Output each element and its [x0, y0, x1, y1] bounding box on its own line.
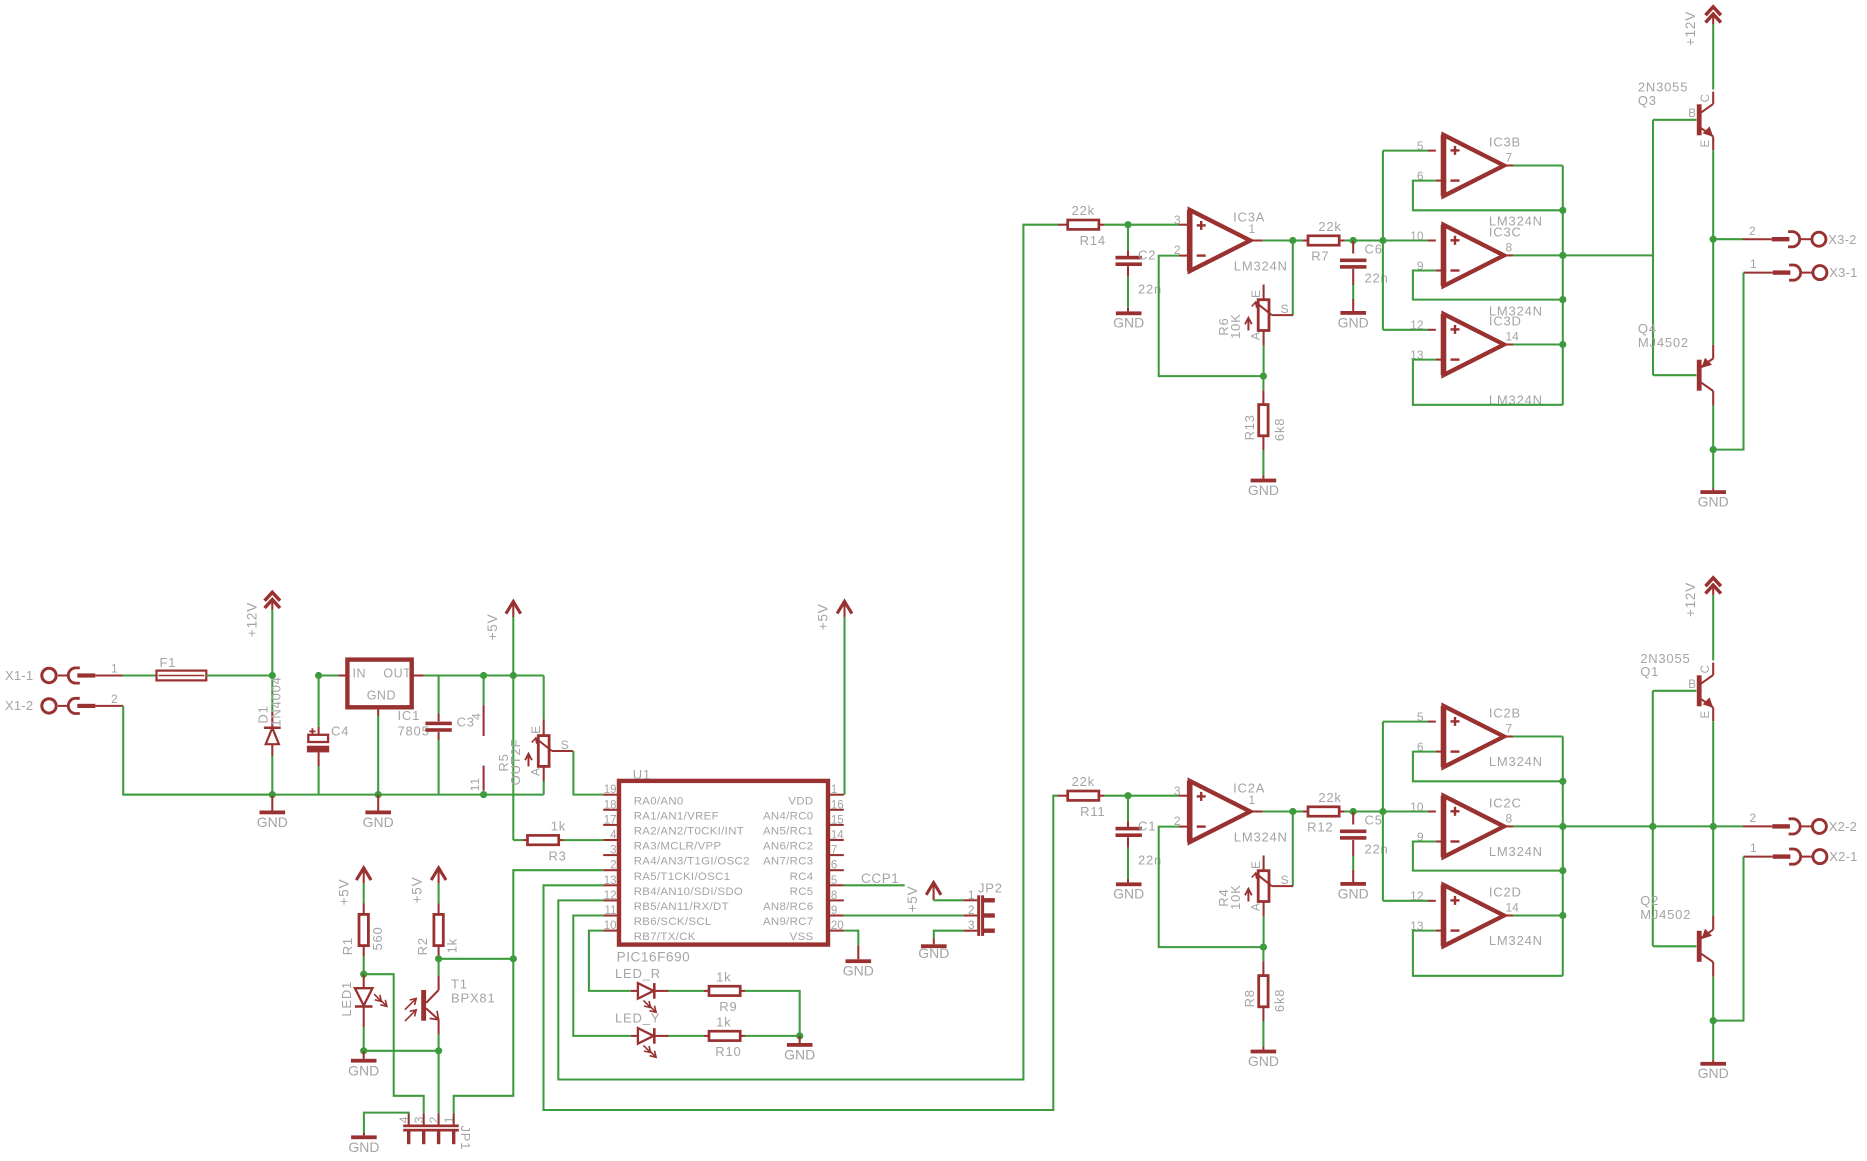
svg-text:R10: R10: [715, 1044, 741, 1059]
svg-text:3: 3: [610, 845, 616, 857]
wire feedback IC3D: [1413, 360, 1563, 405]
svg-text:AN6/RC2: AN6/RC2: [763, 841, 814, 853]
svg-text:C2: C2: [1138, 248, 1156, 263]
svg-text:GND: GND: [367, 688, 396, 702]
pin U1.4 RA3/MCLR/VPP: [603, 839, 619, 841]
wire IC3A output: [1250, 239, 1262, 241]
wire IC3D output: [1504, 343, 1513, 345]
svg-text:9: 9: [831, 905, 837, 917]
svg-text:JP2: JP2: [978, 881, 1003, 896]
svg-text:RA5/T1CKI/OSC1: RA5/T1CKI/OSC1: [634, 871, 731, 883]
svg-text:AN9/RC7: AN9/RC7: [763, 916, 814, 928]
svg-text:20: 20: [831, 920, 844, 932]
supply +12V at Q3: [1706, 7, 1721, 15]
wire +5V pullup to R3: [512, 676, 514, 841]
svg-text:E: E: [529, 725, 543, 734]
wire output to X3-2: [1713, 238, 1742, 240]
wire LED_Y to R10: [669, 1035, 705, 1037]
svg-text:16: 16: [831, 799, 844, 811]
svg-text:5: 5: [1417, 710, 1424, 724]
wire output column: [1562, 166, 1564, 405]
svg-text:GND: GND: [257, 814, 288, 830]
svg-text:E: E: [1700, 710, 1712, 718]
svg-text:LM324N: LM324N: [1234, 830, 1288, 845]
svg-text:RB4/AN10/SDI/SDO: RB4/AN10/SDI/SDO: [634, 886, 743, 898]
node R1 LED1 junction: [360, 971, 367, 978]
svg-text:LM324N: LM324N: [1489, 933, 1543, 948]
svg-text:1: 1: [1750, 257, 1757, 271]
svg-text:+5V: +5V: [905, 886, 920, 913]
ground symbol at JP1: [351, 1135, 377, 1139]
led LED1: [363, 974, 365, 988]
svg-text:GND: GND: [784, 1047, 815, 1063]
node R7 C6 junction: [1350, 237, 1357, 244]
svg-text:8: 8: [831, 890, 837, 902]
wire feedback IC2C: [1413, 842, 1563, 871]
svg-text:12: 12: [1410, 318, 1424, 332]
supply +5V at R2: [431, 868, 446, 880]
svg-text:A: A: [529, 767, 543, 776]
wire LED1 junction to JP1 pin3: [364, 974, 424, 1113]
svg-text:IC2C: IC2C: [1489, 796, 1522, 811]
wire input net from (543.5, 885.3, 1110.0, 1053.3): [544, 796, 1059, 1110]
node power pin 4 junction: [480, 672, 487, 679]
svg-text:VDD: VDD: [788, 795, 813, 807]
svg-text:22k: 22k: [1318, 790, 1341, 805]
wire VSS to ground: [844, 931, 859, 946]
svg-text:1: 1: [111, 662, 118, 676]
svg-text:12: 12: [1410, 889, 1424, 903]
pin IC3D inverting input: [1436, 359, 1444, 361]
pin U1.8 AN8/RC6: [828, 899, 844, 901]
node C4 rail junction: [315, 672, 322, 679]
wire output column: [1562, 737, 1564, 976]
svg-text:IN: IN: [353, 666, 367, 680]
svg-text:4: 4: [610, 830, 617, 842]
svg-text:R8: R8: [1242, 989, 1257, 1007]
svg-text:MJ4502: MJ4502: [1638, 335, 1689, 350]
svg-text:1: 1: [1249, 793, 1256, 807]
capacitor C1 22n: [1127, 796, 1129, 822]
fuse F1: [157, 671, 207, 681]
node R2 T1 junction: [435, 955, 442, 962]
wire JP2 pin3 to ground: [934, 931, 964, 939]
svg-text:RB5/AN11/RX/DT: RB5/AN11/RX/DT: [634, 901, 729, 913]
svg-text:T1: T1: [451, 976, 468, 991]
wire IC3C output: [1504, 254, 1513, 256]
resistor R2 1k: [438, 904, 440, 915]
pin IC3A inverting input: [1179, 255, 1187, 257]
svg-text:GND: GND: [363, 814, 394, 830]
capacitor C4 polarized: [318, 676, 320, 728]
pin U1.15 AN5/RC1: [828, 824, 844, 826]
wire output to X2-2: [1713, 825, 1743, 827]
svg-text:22k: 22k: [1072, 774, 1095, 789]
svg-text:1: 1: [831, 784, 837, 796]
svg-text:5: 5: [1417, 139, 1424, 153]
pin U1.20 VSS: [828, 930, 844, 932]
svg-text:3: 3: [1174, 784, 1181, 798]
led LED_R: [631, 990, 638, 992]
ground symbol at C2: [1116, 311, 1142, 315]
node input distribution junction: [1379, 808, 1386, 815]
wire T1 emitter to JP1 pin2: [438, 1051, 440, 1113]
transistor Q4 MJ4502: [1697, 360, 1702, 391]
svg-text:GND: GND: [843, 963, 874, 979]
svg-text:LM324N: LM324N: [1234, 259, 1288, 274]
svg-text:+5V: +5V: [410, 877, 425, 904]
svg-text:14: 14: [831, 830, 844, 842]
wire output node to Q2 emitter: [1712, 826, 1714, 916]
node output junction IC2A: [1289, 808, 1296, 815]
ground symbol at LED1: [363, 1051, 365, 1059]
svg-text:C6: C6: [1365, 242, 1383, 257]
svg-text:GND: GND: [918, 945, 949, 961]
wire IC2C output row to X2-2: [1563, 825, 1713, 827]
pin U1.5 RC5: [828, 884, 844, 886]
svg-text:B: B: [1688, 108, 1696, 120]
pin IC2D inverting input: [1436, 930, 1444, 932]
pin U1.3 RA4/AN3/T1GI/OSC2: [603, 854, 619, 856]
wire IC3C output to transistor bases: [1563, 254, 1653, 256]
microcontroller U1 PIC16F690: [619, 781, 828, 945]
wire +5V to JP2 pin1: [934, 899, 964, 901]
connector X2-1: [1744, 856, 1773, 858]
wire Q4 collector to ground node: [1712, 406, 1714, 450]
svg-text:AN7/RC3: AN7/RC3: [763, 856, 814, 868]
wire IC1 OUT +5V rail: [412, 674, 424, 676]
svg-text:VSS: VSS: [790, 931, 814, 943]
svg-text:RA0/AN0: RA0/AN0: [634, 795, 684, 807]
svg-text:R14: R14: [1080, 233, 1106, 248]
pin U1.16 AN4/RC0: [828, 809, 844, 811]
svg-text:13: 13: [604, 875, 617, 887]
svg-text:R11: R11: [1080, 804, 1105, 819]
ground symbol at R13: [1251, 479, 1277, 483]
svg-text:7: 7: [831, 845, 837, 857]
resistor R12 22k: [1293, 810, 1303, 812]
node IC1 ground junction: [375, 791, 382, 798]
svg-text:3: 3: [968, 918, 975, 932]
svg-text:18: 18: [604, 799, 617, 811]
op-amp IC2B: [1444, 706, 1505, 767]
svg-text:RA4/AN3/T1GI/OSC2: RA4/AN3/T1GI/OSC2: [634, 856, 750, 868]
svg-text:IC3C: IC3C: [1489, 225, 1522, 240]
svg-text:S: S: [1281, 873, 1290, 887]
wire CCP1 net: [844, 884, 905, 886]
ground symbol at C5: [1340, 882, 1366, 886]
transistor Q2 MJ4502: [1697, 931, 1702, 962]
svg-text:X3-1: X3-1: [1829, 265, 1857, 280]
svg-text:JP1: JP1: [458, 1125, 473, 1150]
connector X3-1: [1744, 272, 1773, 274]
svg-text:RB7/TX/CK: RB7/TX/CK: [634, 931, 696, 943]
ground symbol at VSS: [846, 959, 872, 963]
svg-text:Q3: Q3: [1638, 93, 1657, 108]
pin U1.14 AN6/RC2: [828, 839, 844, 841]
capacitor C3: [438, 676, 440, 714]
ground symbol at D1: [271, 795, 273, 811]
svg-text:7805: 7805: [398, 723, 430, 738]
svg-text:10K: 10K: [1228, 313, 1243, 339]
ground rail wire: [123, 794, 544, 796]
svg-text:IC2B: IC2B: [1489, 706, 1521, 721]
svg-text:A: A: [1249, 902, 1263, 911]
svg-text:6k8: 6k8: [1272, 418, 1287, 441]
op-amp IC3C: [1444, 225, 1505, 286]
svg-text:5: 5: [831, 875, 837, 887]
ground symbol at C1: [1116, 882, 1142, 886]
connector JP2: [963, 899, 977, 901]
svg-text:+5V: +5V: [815, 603, 830, 630]
capacitor C2 22n: [1127, 225, 1129, 251]
op-amp IC2C: [1444, 796, 1505, 857]
svg-text:2: 2: [1750, 811, 1757, 825]
wire IC2B output: [1504, 735, 1513, 737]
resistor R3 1k: [513, 839, 523, 841]
wire to IC3A pin3: [1128, 224, 1179, 226]
op-amp IC2A: [1190, 781, 1251, 842]
svg-text:19: 19: [604, 784, 617, 796]
wire R10 to ground node: [745, 1035, 800, 1037]
svg-text:+12V: +12V: [1683, 582, 1698, 617]
connector X3-2: [1743, 238, 1772, 240]
svg-text:11: 11: [468, 777, 482, 791]
svg-text:1: 1: [1750, 841, 1757, 855]
power pin 11 of LM324: [483, 766, 485, 791]
svg-text:+12V: +12V: [245, 602, 260, 637]
svg-text:AN8/RC6: AN8/RC6: [763, 901, 814, 913]
pin U1.10 RB7/TX/CK: [603, 930, 619, 932]
wire R9 to ground node: [745, 991, 800, 1036]
pin U1.18 RA1/AN1/VREF: [603, 809, 619, 811]
svg-text:6k8: 6k8: [1272, 989, 1287, 1012]
node output junction IC3A: [1289, 237, 1296, 244]
wire feedback IC3B: [1413, 181, 1563, 211]
svg-text:RA3/MCLR/VPP: RA3/MCLR/VPP: [634, 841, 722, 853]
svg-text:LED_R: LED_R: [615, 966, 661, 981]
node R14 C2 junction: [1124, 221, 1131, 228]
wire to IC2A pin3: [1128, 795, 1179, 797]
node feedback junction R13: [1260, 373, 1267, 380]
svg-text:4: 4: [469, 712, 483, 719]
pin U1.6 RC4: [828, 869, 844, 871]
resistor R13 6k8: [1262, 376, 1264, 390]
wire C6 junction to IC3C pin10: [1353, 239, 1383, 241]
supply +12V: [265, 592, 280, 600]
wire feedback IC2A: [1159, 827, 1264, 948]
wire R5 wiper to pin RA0: [573, 751, 603, 795]
svg-text:7: 7: [1506, 722, 1513, 736]
svg-text:+5V: +5V: [485, 614, 500, 641]
node X2-2 output junction: [1710, 823, 1717, 830]
svg-text:LED1: LED1: [339, 981, 354, 1017]
svg-text:E: E: [1249, 289, 1263, 298]
svg-text:10: 10: [1410, 800, 1424, 814]
svg-text:E: E: [1700, 139, 1712, 147]
transistor Q3 2N3055: [1697, 104, 1702, 135]
svg-text:GND: GND: [1113, 315, 1144, 331]
resistor R8 6k8: [1262, 947, 1264, 961]
supply +5V at regulator: [512, 617, 514, 676]
node power pin 11 ground junction: [480, 791, 487, 798]
svg-text:X2-1: X2-1: [1829, 849, 1857, 864]
svg-text:10: 10: [1410, 229, 1424, 243]
wire to IC2B pin5 and IC2D pin12: [1382, 722, 1384, 901]
svg-text:U1: U1: [633, 767, 651, 782]
svg-text:1k: 1k: [716, 969, 731, 984]
wire output node to Q4 emitter: [1712, 239, 1714, 345]
supply +5V at VDD: [843, 617, 845, 795]
diode D1 1N4004: [271, 676, 273, 713]
svg-text:IC3B: IC3B: [1489, 135, 1521, 150]
svg-text:14: 14: [1506, 330, 1520, 344]
svg-text:R13: R13: [1242, 414, 1257, 440]
svg-text:22k: 22k: [1072, 203, 1095, 218]
ground symbol at Q2: [1712, 1021, 1714, 1060]
node D1 ground junction: [269, 791, 276, 798]
wire RC7 to JP2 pin2: [844, 914, 964, 916]
pin IC3C inverting input: [1436, 269, 1444, 271]
wire Q3 emitter to output node: [1712, 150, 1714, 239]
svg-text:22n: 22n: [1365, 841, 1389, 856]
wire JP1 pin4 to ground: [364, 1113, 409, 1133]
svg-text:R2: R2: [415, 937, 430, 955]
wire IC2A output: [1250, 810, 1262, 812]
svg-text:3: 3: [1174, 213, 1181, 227]
pin U1.2 RA5/T1CKI/OSC1: [603, 869, 619, 871]
resistor R9 1k: [704, 990, 709, 992]
svg-text:IC2D: IC2D: [1489, 885, 1522, 900]
pin U1.9 AN9/RC7: [828, 914, 844, 916]
svg-text:2: 2: [610, 860, 616, 872]
node R11 C1 junction: [1124, 792, 1131, 799]
wire base column Q3 Q4: [1652, 120, 1654, 375]
wire X1-1 to F1: [95, 675, 123, 677]
pin IC2C inverting input: [1436, 840, 1444, 842]
connector X1-2: [42, 699, 56, 713]
svg-text:IC1: IC1: [398, 708, 421, 723]
svg-text:GND: GND: [1698, 1065, 1729, 1081]
pin IC2A inverting input: [1179, 826, 1187, 828]
svg-text:1k: 1k: [716, 1014, 731, 1029]
svg-text:1k: 1k: [551, 819, 566, 834]
svg-text:1: 1: [442, 1116, 456, 1123]
svg-text:C1: C1: [1138, 819, 1156, 834]
wire IC2D output: [1504, 914, 1513, 916]
power pin 4 of LM324: [483, 676, 485, 706]
wire X3-1 to ground node: [1713, 273, 1743, 450]
ground symbol at IC1: [377, 795, 379, 811]
svg-text:X2-2: X2-2: [1829, 819, 1857, 834]
svg-text:1: 1: [968, 888, 975, 902]
wire RB7 to LED_R: [589, 931, 631, 991]
svg-text:1k: 1k: [445, 938, 460, 953]
svg-text:10K: 10K: [1228, 884, 1243, 910]
svg-text:R3: R3: [548, 848, 566, 863]
node base column junction: [1649, 823, 1656, 830]
node input distribution junction: [1379, 237, 1386, 244]
pin U1.13 RB4/AN10/SDI/SDO: [603, 884, 619, 886]
svg-text:RB6/SCK/SCL: RB6/SCK/SCL: [634, 916, 712, 928]
svg-text:LM324N: LM324N: [1489, 754, 1543, 769]
wire output to R4 wiper: [1292, 812, 1294, 887]
svg-text:1: 1: [1249, 222, 1256, 236]
svg-text:AN4/RC0: AN4/RC0: [763, 810, 814, 822]
op-amp IC3A: [1190, 210, 1251, 271]
node X3-2 output junction: [1710, 236, 1717, 243]
wire C5 junction to IC2C pin10: [1353, 810, 1383, 812]
svg-text:22n: 22n: [1365, 270, 1389, 285]
svg-text:C5: C5: [1365, 813, 1383, 828]
node R12 C5 junction: [1350, 808, 1357, 815]
svg-text:OUT: OUT: [383, 666, 411, 680]
wire Q1 emitter to output node: [1712, 721, 1714, 826]
svg-text:+12V: +12V: [1683, 11, 1698, 46]
svg-text:GND: GND: [348, 1139, 379, 1155]
op-amp IC3D: [1444, 314, 1505, 375]
svg-text:MJ4502: MJ4502: [1640, 907, 1691, 922]
supply +5V at R1: [356, 868, 371, 880]
svg-text:2: 2: [1749, 224, 1756, 238]
wire RB6 to LED_Y: [573, 916, 631, 1036]
ground symbol at R8: [1251, 1050, 1277, 1054]
svg-text:PIC16F690: PIC16F690: [617, 949, 691, 964]
node +5V junction: [510, 672, 517, 679]
ground symbol at R10: [799, 1036, 801, 1043]
wire IC2C output: [1504, 825, 1513, 827]
svg-text:R9: R9: [719, 999, 737, 1014]
node +12V rail junction: [269, 672, 276, 679]
pin IC1 GND: [377, 707, 379, 716]
led LED_Y: [631, 1035, 638, 1037]
trimmer R6 10K: [1258, 300, 1269, 331]
ground symbol at C6: [1340, 311, 1366, 315]
svg-text:RC4: RC4: [790, 871, 814, 883]
node column junctions: [1559, 207, 1566, 214]
svg-text:BPX81: BPX81: [451, 991, 495, 1006]
svg-text:GND: GND: [1338, 886, 1369, 902]
wire IC3B output: [1504, 164, 1513, 166]
svg-text:1N4004: 1N4004: [269, 676, 284, 726]
wire X2-1 to ground node: [1713, 857, 1743, 1021]
node RA5 T1 junction: [510, 955, 517, 962]
svg-text:8: 8: [1506, 241, 1513, 255]
capacitor C6 22n: [1352, 241, 1354, 254]
pin U1.7 AN7/RC3: [828, 854, 844, 856]
connector X2-2: [1743, 825, 1772, 827]
connector JP1: [408, 1113, 410, 1124]
svg-text:X1-1: X1-1: [5, 668, 33, 683]
svg-text:RC5: RC5: [790, 886, 814, 898]
wire LED1 gnd to T1 emitter: [364, 1050, 439, 1052]
pin U1.12 RB5/AN11/RX/DT: [603, 899, 619, 901]
svg-text:10: 10: [604, 920, 617, 932]
resistor R11 22k: [1058, 795, 1067, 797]
svg-text:Q2: Q2: [1640, 893, 1659, 908]
node T1 emitter junction: [435, 1047, 442, 1054]
trimmer R5 OUT2F: [543, 676, 545, 720]
node R9 R10 ground junction: [796, 1032, 803, 1039]
svg-text:F1: F1: [160, 655, 177, 670]
svg-text:R7: R7: [1311, 249, 1329, 264]
wire RA5 to T1 collector and JP1 pin1: [513, 870, 603, 959]
svg-text:B: B: [1688, 679, 1696, 691]
svg-text:7: 7: [1506, 151, 1513, 165]
svg-text:2: 2: [968, 903, 975, 917]
svg-text:IC3D: IC3D: [1489, 314, 1522, 329]
transistor Q1 2N3055: [1697, 675, 1702, 706]
